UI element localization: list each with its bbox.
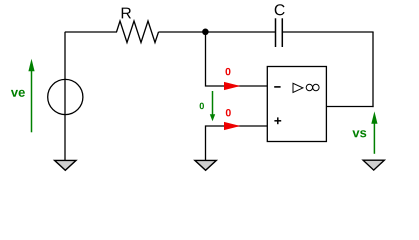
arrow 0 red into plus input bbox=[224, 122, 240, 130]
op-amp plus pin bbox=[274, 117, 281, 124]
label 0 red bottom bbox=[226, 109, 231, 116]
wire non-inverting input bbox=[206, 126, 268, 160]
arrow ve (green up) bbox=[28, 59, 34, 133]
label 0 red top bbox=[226, 68, 231, 75]
arrow 0 green down (middle) bbox=[210, 91, 215, 121]
wire left vertical through source bbox=[64, 32, 66, 160]
voltage source E circle bbox=[48, 79, 83, 114]
op-amp U1 box bbox=[267, 67, 326, 142]
op-amp gain triangle bbox=[293, 83, 303, 92]
op-amp infinity symbol bbox=[306, 84, 319, 90]
arrow vs (green up) bbox=[371, 111, 377, 153]
capacitor C plates bbox=[275, 18, 277, 47]
resistor R bbox=[117, 21, 159, 43]
label 0 green bbox=[200, 103, 204, 110]
wire feedback right vertical bbox=[372, 32, 374, 107]
ground left bbox=[55, 160, 76, 170]
op-amp minus pin bbox=[274, 86, 280, 88]
ground right (vs) bbox=[363, 160, 384, 170]
label vs bbox=[352, 130, 366, 137]
ground middle bbox=[195, 160, 216, 170]
wire junction down to inverting input bbox=[206, 32, 268, 86]
wire capacitor to right corner bbox=[283, 31, 374, 33]
label ve bbox=[11, 90, 25, 97]
label R bbox=[122, 8, 131, 19]
label C bbox=[275, 4, 285, 15]
arrow 0 red into minus input bbox=[224, 82, 240, 90]
wire top-left horizontal bbox=[65, 31, 117, 33]
node junction dot bbox=[202, 29, 209, 36]
wire output bbox=[326, 106, 373, 108]
wire resistor to junction bbox=[159, 31, 276, 33]
